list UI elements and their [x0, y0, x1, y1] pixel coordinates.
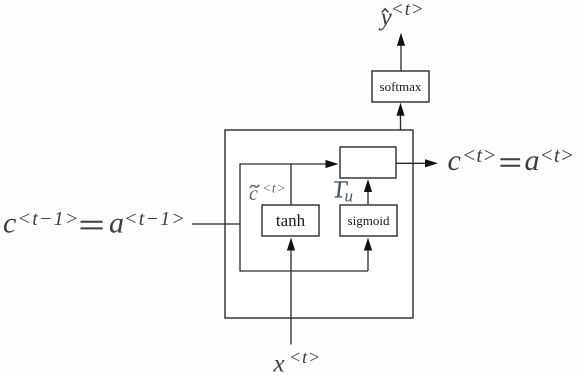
wire: softmax output up to y-hat [400, 45, 402, 71]
svg-text:c: c [448, 144, 461, 177]
update-cell box (memory cell output) [340, 147, 396, 178]
svg-text:<t>: <t> [289, 347, 321, 367]
svg-text:<t>: <t> [540, 143, 575, 167]
wire: c<t-1> entry [192, 223, 240, 225]
wire: x<t> input vertical [290, 250, 292, 345]
wire: inner bottom horizontal [240, 270, 368, 272]
label Gamma_u [334, 182, 353, 205]
wire: inner left vertical [239, 163, 241, 271]
svg-text:<t>: <t> [391, 0, 425, 20]
arrowhead into tanh [287, 238, 295, 251]
arrowhead c<t> output [425, 159, 438, 167]
wire: sigmoid output up to memory box [367, 192, 369, 206]
svg-text:a: a [109, 207, 124, 240]
svg-text:<t−1>: <t−1> [124, 208, 186, 230]
svg-text:<t−1>: <t−1> [18, 208, 80, 230]
tanh box [262, 205, 319, 236]
label c<t-1> = a<t-1> (input) [3, 207, 186, 240]
svg-text:x: x [273, 351, 285, 376]
label c<t> = a<t> (output) [448, 143, 575, 177]
label c-tilde<t> [249, 180, 286, 205]
svg-text:<t>: <t> [462, 143, 497, 167]
svg-text:tanh: tanh [276, 211, 306, 230]
arrowhead to y-hat [397, 33, 405, 46]
wire: inner top feed into memory box [240, 163, 329, 165]
arrowhead into memory box bottom [364, 179, 372, 192]
label y-hat<t> [378, 0, 425, 31]
svg-text:sigmoid: sigmoid [348, 213, 390, 228]
softmax box [372, 71, 429, 102]
sigmoid box [340, 205, 397, 236]
arrowhead into sigmoid [364, 238, 372, 251]
outer cell box [225, 130, 413, 318]
wire: cell top edge up to softmax [400, 116, 402, 131]
svg-text:softmax: softmax [380, 79, 422, 94]
svg-text:u: u [345, 186, 354, 205]
svg-text:a: a [525, 144, 540, 177]
arrowhead into memory box [326, 160, 339, 168]
wire: bottom feed up into sigmoid [367, 250, 369, 271]
wire: tanh output up to top feed [290, 164, 292, 205]
arrowhead into softmax [396, 103, 404, 116]
svg-text:<t>: <t> [262, 180, 286, 195]
label x<t> (input) [273, 347, 322, 376]
wire: memory box output to the right [396, 162, 426, 164]
svg-text:c: c [3, 207, 16, 240]
